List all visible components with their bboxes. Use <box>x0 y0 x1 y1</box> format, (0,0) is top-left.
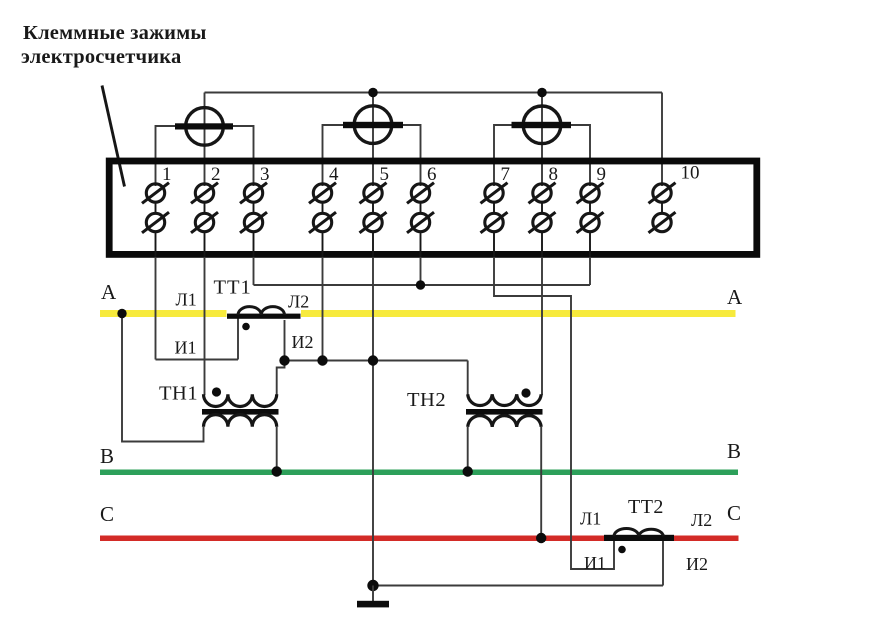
junction dot terminal 6 / common row <box>416 280 425 289</box>
terminal clamp 3 <box>240 183 267 258</box>
TH1 polarity dot <box>212 387 221 396</box>
wire: terminal 6 down to common row <box>420 257 422 285</box>
svg-text:10: 10 <box>681 163 700 184</box>
voltage transformer TH2 <box>466 388 543 426</box>
wire: TT2 И2 lead down <box>662 541 664 586</box>
terminal clamp 2 <box>191 183 218 258</box>
TH2 secondary winding (top) <box>468 394 542 405</box>
wire: terminal 1 down to И1 row <box>155 257 157 360</box>
wire: TH2 primary right lead to phase C <box>540 427 542 538</box>
svg-text:И2: И2 <box>292 332 314 352</box>
phase B bus (green) <box>100 470 738 476</box>
terminal clamp 6 <box>407 183 434 258</box>
svg-text:С: С <box>727 501 741 525</box>
terminal clamp 10 <box>649 183 676 233</box>
junction dot above meter element 2 <box>368 88 378 98</box>
junction dot phase A tap <box>117 309 126 318</box>
wire: top bus from meter element 1 to terminal 10 <box>205 92 663 94</box>
svg-text:И2: И2 <box>686 554 708 574</box>
svg-text:В: В <box>727 439 741 463</box>
TH2 core bar <box>466 409 543 415</box>
wire: meter element 3 right lead to terminal 9 <box>571 125 590 186</box>
svg-text:А: А <box>101 280 117 304</box>
wire: TH1 primary left lead to phase A <box>122 314 204 442</box>
wire: TH1 primary right lead to phase B <box>276 427 278 472</box>
svg-text:1: 1 <box>162 164 172 185</box>
junction dot terminal 4 / И2 net <box>317 355 327 365</box>
svg-text:Л1: Л1 <box>176 290 197 310</box>
svg-text:6: 6 <box>427 164 437 185</box>
svg-text:2: 2 <box>211 164 221 185</box>
ground <box>357 586 389 608</box>
terminal box of the meter <box>109 161 757 254</box>
TH2 primary winding (bottom) <box>468 416 542 427</box>
wire: terminal 9 down to common row <box>589 257 591 285</box>
junction dot TH1 on phase B <box>272 466 282 476</box>
wire: terminal 7 down then right <box>494 257 614 569</box>
junction dot И2 of TT1 <box>279 355 289 365</box>
wire: terminal 4 down to И2 net <box>322 257 324 361</box>
wire: meter element 3 left lead to terminal 7 <box>494 125 512 186</box>
terminal clamp 5 <box>360 183 387 258</box>
terminal clamp 7 <box>481 183 508 258</box>
TT2 primary bar <box>604 535 674 541</box>
TT1 primary bar <box>227 314 301 319</box>
TT2 polarity dot <box>618 546 626 554</box>
meter current element 1 (circle with bar) <box>175 108 233 146</box>
svg-text:А: А <box>727 285 743 309</box>
title label: Клеммные зажимы электросчетчика <box>21 22 207 68</box>
meter current element 3 (circle with bar) <box>512 106 572 144</box>
phase A bus (yellow) <box>100 310 736 317</box>
wire: common row y=285 from terminal 3 to terminal 9 <box>254 284 591 286</box>
leader line from title to terminal box <box>102 86 125 187</box>
junction dot TH2 on phase C <box>536 533 546 543</box>
junction dot terminal 5 / И2 net <box>368 355 378 365</box>
svg-text:4: 4 <box>329 164 339 185</box>
voltage transformer TH1 <box>202 387 279 426</box>
wire: vertical through meter element 2 to terminal 5 <box>372 93 374 187</box>
svg-text:Л1: Л1 <box>580 509 601 529</box>
wire: vertical through meter element 3 to terminal 8 <box>541 93 543 187</box>
current transformer TT2 on phase C <box>604 528 674 553</box>
TT2 secondary humps <box>614 528 664 536</box>
svg-text:ТТ2: ТТ2 <box>628 496 664 518</box>
wire: meter element 1 left lead to terminal 1 <box>156 126 176 186</box>
svg-text:ТТ1: ТТ1 <box>214 277 252 299</box>
wire: meter element 1 right lead to terminal 3 <box>233 126 254 186</box>
current transformer TT1 on phase A <box>227 307 302 331</box>
wire: TH2 primary left lead to phase B <box>467 427 469 472</box>
svg-text:И1: И1 <box>175 338 197 358</box>
wire: И2 net horizontal to TH2 secondary left <box>285 360 468 362</box>
wire: meter element 2 left lead to terminal 4 <box>323 125 344 186</box>
terminal clamp 8 <box>529 183 556 258</box>
svg-text:Клеммные зажимы: Клеммные зажимы <box>23 22 207 44</box>
svg-text:С: С <box>100 502 114 526</box>
terminal clamp 1 <box>142 183 169 258</box>
TH1 primary winding (bottom) <box>204 415 277 427</box>
TH2 polarity dot <box>521 388 530 397</box>
svg-text:Л2: Л2 <box>691 510 712 530</box>
wire: terminal 5 down to ground node <box>372 257 374 586</box>
wire: terminal 2 down to TH1 secondary left lead <box>204 257 206 395</box>
svg-text:В: В <box>100 444 114 468</box>
wire: meter element 2 right lead to terminal 6 <box>403 125 421 186</box>
svg-text:3: 3 <box>260 164 270 185</box>
wire: ground run from TT2 И2 to ground node <box>373 585 663 587</box>
TT1 polarity dot <box>242 323 250 331</box>
junction dot ground node <box>367 580 378 591</box>
junction dot TH2 on phase B <box>463 466 473 476</box>
TH1 secondary winding (top) <box>204 394 277 406</box>
svg-text:ТН1: ТН1 <box>159 383 198 405</box>
svg-text:7: 7 <box>501 164 511 185</box>
wire: down to terminal 10 <box>661 93 663 187</box>
TT1 secondary humps <box>238 307 285 315</box>
svg-text:ТН2: ТН2 <box>407 389 446 411</box>
TH1 core bar <box>202 409 279 415</box>
wire: И1 lead up to TT1 bar <box>237 316 239 360</box>
wire: vertical through meter element 1 to terminal 2 <box>204 93 206 187</box>
terminal clamp 9 <box>577 183 604 258</box>
wire: TH2 secondary left lead down <box>467 361 469 396</box>
wire: terminal 3 down to common row y=285 <box>253 257 255 285</box>
terminal clamp 4 <box>309 183 336 258</box>
meter current element 2 (circle with bar) <box>343 106 403 144</box>
wire: TT1 И2 lead down <box>284 320 286 361</box>
wire: terminal 8 down to TH2 secondary right lead <box>541 257 543 395</box>
wire: TH1 secondary right lead jog to И2 net <box>277 361 285 396</box>
svg-text:электросчетчика: электросчетчика <box>21 46 181 68</box>
phase C bus (red) <box>100 536 739 542</box>
wire: И1 horizontal run to TT1 secondary left <box>156 359 239 361</box>
svg-text:5: 5 <box>380 164 390 185</box>
svg-text:9: 9 <box>597 164 607 185</box>
junction dot above meter element 3 <box>537 88 547 98</box>
svg-text:8: 8 <box>549 164 559 185</box>
svg-text:И1: И1 <box>584 553 606 573</box>
svg-text:Л2: Л2 <box>288 292 309 312</box>
white mask over bus under TT1 <box>227 308 302 318</box>
